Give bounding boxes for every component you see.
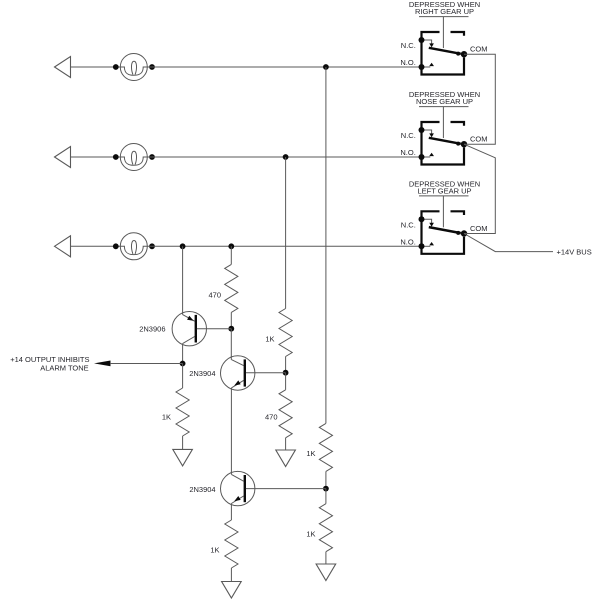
wire R470b to ground: [285, 438, 287, 450]
switch S2 plunger: [442, 107, 444, 138]
resistor R1Kb (1K): [176, 388, 189, 436]
svg-text:COM: COM: [470, 45, 488, 54]
wire node down to Q2 collector: [230, 329, 232, 360]
svg-text:1K: 1K: [306, 449, 315, 458]
node: row3 / Q1 emitter junction: [180, 243, 186, 249]
wire Q2 emitter down to Q3 collector: [230, 388, 232, 475]
svg-text:1K: 1K: [162, 413, 171, 422]
transistor Q3 2N3904: [221, 471, 255, 505]
wire R1Ke to ground: [230, 568, 232, 582]
label S1 underline: [419, 16, 469, 18]
wire junction to R1Kb: [182, 364, 184, 389]
switch S2 lever: [429, 138, 461, 144]
svg-text:N.C.: N.C.: [401, 131, 416, 140]
switch S1 lever: [429, 48, 461, 54]
node: row1 / bus junction: [323, 64, 329, 70]
switch S1 N.C. terminal: [419, 37, 425, 43]
svg-text:N.C.: N.C.: [401, 220, 416, 229]
switch S2 N.O. contact: [422, 156, 431, 158]
wire row 3 left: [71, 245, 121, 247]
ground G4: [222, 582, 242, 599]
resistor R1Kc (1K): [319, 423, 332, 471]
node: row2 lamp right dot: [149, 154, 155, 160]
resistor R1Kd (1K): [319, 504, 332, 552]
transistor Q1 2N3906: [172, 312, 206, 346]
switch S3 plunger: [442, 196, 444, 227]
switch S2 COM terminal: [461, 141, 467, 147]
node: row3 / R470a junction: [228, 243, 234, 249]
label S3 underline: [419, 195, 469, 197]
wire row3 to Q1 emitter: [182, 246, 184, 314]
svg-text:2N3906: 2N3906: [139, 324, 165, 333]
svg-text:N.C.: N.C.: [401, 41, 416, 50]
switch S3 lever: [429, 227, 461, 233]
indicator arrow row 1: [55, 57, 71, 78]
svg-text:2N3904: 2N3904: [189, 485, 215, 494]
wire node to R1Kd: [325, 489, 327, 504]
switch S2 N.C. actuator: [422, 130, 432, 134]
svg-text:1K: 1K: [210, 546, 219, 555]
wire row 1 left: [71, 66, 121, 68]
switch S1 plunger: [442, 17, 444, 48]
wire Q1 collector down: [182, 344, 184, 364]
node: row1 lamp left dot: [113, 64, 119, 70]
node: row1 lamp right dot: [149, 64, 155, 70]
wire row 1 right: [147, 66, 421, 68]
wire R470a to Q1 base node: [230, 312, 232, 328]
switch S3 N.C. actuator: [422, 219, 432, 223]
switch S2 N.O. terminal: [419, 154, 425, 160]
node: Q2 base junction: [283, 370, 289, 376]
wire R1Kc to Q3 base node: [325, 471, 327, 488]
wire output arrow to junction: [110, 363, 183, 365]
wire row2 down to R1Ka: [285, 157, 287, 309]
lamp DS2: [120, 144, 147, 171]
wire COM1 to COM2: [464, 54, 495, 144]
label S2 underline: [419, 106, 469, 108]
wire row 3 right: [147, 245, 421, 247]
node: row2 / R2 branch junction: [283, 154, 289, 160]
switch S3 N.O. terminal: [419, 243, 425, 249]
wire row3 down to R470a: [230, 246, 232, 264]
resistor R470b (470): [279, 390, 292, 438]
svg-text:NOSE GEAR UP: NOSE GEAR UP: [416, 97, 473, 106]
switch S2 N.C. terminal: [419, 127, 425, 133]
switch S3 COM terminal: [461, 230, 467, 236]
svg-text:1K: 1K: [306, 530, 315, 539]
svg-text:LEFT GEAR UP: LEFT GEAR UP: [417, 186, 471, 195]
ground G3: [316, 564, 336, 581]
resistor R1Ka (1K): [279, 309, 292, 357]
ground G1: [173, 449, 193, 466]
resistor R1Ke (1K): [225, 520, 238, 568]
svg-text:N.O.: N.O.: [400, 148, 415, 157]
wire COM2 to COM3: [464, 144, 495, 233]
svg-text:N.O.: N.O.: [400, 58, 415, 67]
wire R1Kb to ground: [182, 436, 184, 449]
switch S1 N.O. contact: [422, 66, 431, 68]
svg-text:470: 470: [208, 290, 221, 299]
node: Q3 base junction: [323, 486, 329, 492]
wire node to R470b: [285, 373, 287, 390]
svg-text:470: 470: [265, 413, 278, 422]
svg-text:ALARM TONE: ALARM TONE: [40, 363, 89, 372]
wire Q3 emitter to R1Ke: [230, 504, 232, 521]
wire Q1 base to node: [197, 328, 231, 330]
switch S3 N.O. contact: [422, 245, 431, 247]
switch S1 body: [422, 32, 465, 75]
switch S3 N.C. terminal: [419, 216, 425, 222]
svg-text:RIGHT GEAR UP: RIGHT GEAR UP: [415, 7, 474, 16]
lamp DS3: [120, 233, 147, 260]
wire Q3 base to node: [246, 488, 326, 490]
switch S1 N.O. terminal: [419, 64, 425, 70]
node: row3 lamp left dot: [113, 243, 119, 249]
svg-text:+14V BUS: +14V BUS: [557, 247, 592, 256]
svg-text:1K: 1K: [265, 334, 274, 343]
wire row 2 left: [71, 156, 121, 158]
wire Q2 base to node: [246, 372, 286, 374]
switch S3 body: [422, 211, 465, 254]
wire R1Ka to Q2 base node: [285, 357, 287, 373]
resistor R470a (470): [225, 264, 238, 312]
node: row3 lamp right dot: [149, 243, 155, 249]
switch S1 COM terminal: [461, 51, 467, 57]
wire row1 down to R1Kc: [325, 67, 327, 423]
ground G2: [276, 450, 296, 467]
svg-text:COM: COM: [470, 224, 488, 233]
indicator arrow row 3: [55, 236, 71, 257]
wire row 2 right: [147, 156, 421, 158]
switch S1 N.C. actuator: [422, 40, 432, 44]
node: row2 lamp left dot: [113, 154, 119, 160]
wire COM3 to +14V bus: [464, 234, 553, 252]
svg-text:COM: COM: [470, 135, 488, 144]
node: alarm output junction: [180, 361, 186, 367]
switch S2 body: [422, 122, 465, 165]
lamp DS1: [120, 54, 147, 81]
alarm output arrow: [94, 361, 111, 367]
node: Q1 base junction: [228, 326, 234, 332]
svg-text:N.O.: N.O.: [400, 237, 415, 246]
transistor Q2 2N3904: [221, 356, 255, 390]
indicator arrow row 2: [55, 147, 71, 168]
svg-text:2N3904: 2N3904: [189, 369, 215, 378]
wire R1Kd to ground: [325, 552, 327, 564]
